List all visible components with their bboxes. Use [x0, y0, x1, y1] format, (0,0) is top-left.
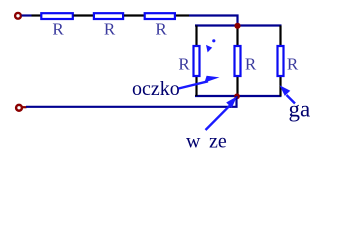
- svg-text:oczko: oczko: [132, 78, 180, 100]
- svg-text:R: R: [104, 20, 116, 39]
- wire: left branch lower stub: [195, 76, 197, 96]
- resistor R6 (right parallel): [278, 46, 284, 76]
- wire: middle branch lower stub: [236, 76, 238, 96]
- node: bottom junction dot (wezel): [234, 93, 240, 99]
- wire: right branch lower stub: [279, 76, 281, 96]
- resistor R5 (middle parallel): [235, 46, 241, 76]
- wire: terminal to R1 (black part): [32, 14, 42, 16]
- resistor R3 (series): [145, 13, 175, 19]
- svg-text:R: R: [245, 55, 257, 74]
- terminal (top left input): [15, 13, 21, 19]
- wire: left branch upper stub: [195, 26, 197, 47]
- wire: bottom return wire: [22, 106, 27, 108]
- resistor R4 (left parallel): [194, 46, 200, 76]
- wire: bottom return run: [26, 96, 237, 107]
- arrow: oczko to mesh: [179, 76, 220, 89]
- svg-text:R: R: [287, 55, 299, 74]
- wire: bottom bus of parallel box: [195, 95, 282, 97]
- arrow: ga to branch: [280, 85, 295, 103]
- wire: R3 to bend (black part): [176, 14, 189, 16]
- arrow: w ze to node: [206, 96, 238, 130]
- svg-text:w: w: [186, 131, 201, 153]
- svg-text:R: R: [155, 20, 167, 39]
- svg-text:R: R: [52, 20, 64, 39]
- wire: right branch upper stub: [279, 26, 281, 47]
- wire: feed to parallel group (navy): [189, 16, 238, 26]
- wire: R2 to R3: [124, 14, 145, 16]
- wire: middle branch upper stub: [236, 26, 238, 47]
- resistor R2 (series): [94, 13, 123, 19]
- wire: top bus of parallel box: [195, 24, 282, 26]
- resistor R1 (series): [41, 13, 73, 19]
- svg-text:ze: ze: [209, 131, 227, 153]
- wire: terminal to R1 (navy part): [22, 14, 32, 16]
- svg-text:R: R: [178, 55, 190, 74]
- node: top junction dot: [234, 23, 240, 29]
- wire: R1 to R2: [74, 14, 95, 16]
- mesh current arrow (small, inside loop): [206, 39, 215, 52]
- terminal (bottom left input): [16, 105, 22, 111]
